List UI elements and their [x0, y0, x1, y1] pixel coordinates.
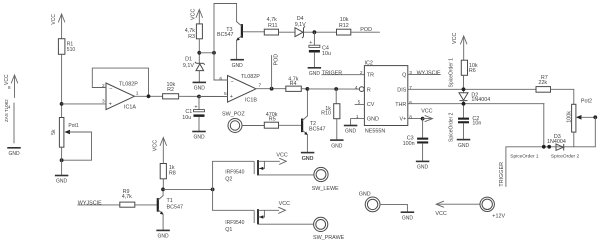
- svg-text:GND: GND: [417, 165, 429, 171]
- svg-text:VCC: VCC: [452, 33, 458, 44]
- svg-text:3: 3: [409, 70, 412, 76]
- svg-text:WYJSCIE: WYJSCIE: [417, 71, 441, 77]
- svg-text:GND: GND: [193, 135, 205, 141]
- svg-text:R: R: [367, 87, 371, 93]
- svg-text:DIS: DIS: [397, 87, 406, 93]
- svg-text:TRIGER: TRIGER: [322, 70, 342, 76]
- svg-text:GND: GND: [458, 143, 470, 149]
- svg-text:7: 7: [409, 85, 412, 91]
- svg-text:4,7k: 4,7k: [122, 194, 132, 200]
- svg-text:IC2: IC2: [365, 61, 373, 67]
- svg-text:BC547: BC547: [217, 32, 233, 38]
- svg-text:TRIGGER: TRIGGER: [499, 162, 505, 187]
- svg-text:WYJSCIE: WYJSCIE: [78, 200, 102, 206]
- svg-text:D4: D4: [297, 16, 304, 22]
- svg-text:VCC: VCC: [153, 140, 159, 151]
- svg-text:7: 7: [259, 83, 262, 89]
- svg-text:D1: D1: [185, 56, 192, 62]
- svg-text:10n: 10n: [472, 120, 481, 126]
- svg-text:TR: TR: [367, 72, 374, 78]
- svg-text:ZAS TL082: ZAS TL082: [4, 99, 9, 122]
- svg-text:POD: POD: [360, 27, 372, 33]
- svg-text:GND: GND: [359, 192, 371, 198]
- svg-text:R12: R12: [339, 23, 349, 29]
- svg-text:SW_PRAWE: SW_PRAWE: [313, 235, 345, 241]
- svg-text:BC547: BC547: [167, 205, 183, 211]
- svg-text:VCC: VCC: [279, 201, 290, 207]
- svg-text:−: −: [231, 79, 234, 85]
- svg-text:IC1A: IC1A: [124, 105, 136, 111]
- svg-text:GND: GND: [402, 215, 414, 221]
- svg-text:GND: GND: [345, 129, 357, 135]
- svg-text:22k: 22k: [538, 80, 547, 86]
- svg-text:CV: CV: [367, 102, 375, 108]
- svg-text:SW_LEWE: SW_LEWE: [312, 186, 339, 192]
- svg-text:5k: 5k: [51, 129, 57, 135]
- svg-text:1N4004: 1N4004: [547, 139, 566, 145]
- svg-text:VCC: VCC: [435, 211, 446, 217]
- svg-text:R3: R3: [188, 34, 195, 40]
- svg-text:IRF9540: IRF9540: [225, 220, 244, 226]
- svg-text:Pot2: Pot2: [581, 99, 592, 105]
- svg-text:2: 2: [102, 83, 105, 89]
- svg-text:POD: POD: [274, 54, 280, 66]
- svg-text:10u: 10u: [322, 51, 331, 57]
- svg-text:Q1: Q1: [225, 227, 232, 233]
- svg-text:SpiceOrder 2: SpiceOrder 2: [448, 112, 454, 142]
- svg-text:510: 510: [67, 47, 76, 53]
- svg-text:SW_POZ: SW_POZ: [222, 112, 245, 118]
- svg-text:100n: 100n: [403, 141, 415, 147]
- svg-text:2: 2: [360, 70, 363, 76]
- svg-text:3: 3: [102, 99, 105, 105]
- svg-text:GND: GND: [309, 71, 321, 77]
- svg-text:5: 5: [224, 91, 227, 97]
- svg-text:R2: R2: [167, 87, 174, 93]
- svg-text:9,1V: 9,1V: [183, 63, 194, 69]
- svg-text:T1: T1: [167, 198, 173, 204]
- svg-text:6: 6: [409, 100, 412, 106]
- svg-text:GND: GND: [331, 143, 343, 149]
- svg-text:GND: GND: [8, 151, 20, 157]
- svg-text:VCC: VCC: [51, 14, 57, 25]
- svg-text:GND: GND: [56, 179, 68, 185]
- svg-text:VCC: VCC: [421, 108, 432, 114]
- svg-text:SpiceOrder 1: SpiceOrder 1: [448, 58, 454, 88]
- svg-text:4: 4: [355, 85, 358, 91]
- svg-text:IC1B: IC1B: [245, 98, 257, 104]
- svg-text:+12V: +12V: [492, 214, 505, 220]
- svg-text:1: 1: [136, 91, 139, 97]
- svg-text:Q: Q: [402, 72, 406, 78]
- svg-text:9,1V: 9,1V: [295, 22, 306, 28]
- svg-text:+: +: [230, 94, 233, 100]
- svg-text:−: −: [109, 87, 112, 93]
- svg-text:GND: GND: [302, 156, 314, 162]
- svg-text:SpiceOrder 1: SpiceOrder 1: [510, 153, 539, 159]
- svg-text:R10: R10: [321, 111, 331, 117]
- svg-text:8: 8: [409, 115, 412, 121]
- svg-text:1N4004: 1N4004: [471, 97, 490, 103]
- svg-text:VCC: VCC: [4, 74, 10, 85]
- svg-text:NE555N: NE555N: [365, 129, 385, 135]
- svg-text:R6: R6: [469, 68, 476, 74]
- svg-text:Q2: Q2: [225, 177, 232, 183]
- svg-text:V+: V+: [400, 116, 407, 122]
- svg-text:10u: 10u: [182, 115, 191, 121]
- svg-text:Pot1: Pot1: [68, 123, 79, 129]
- svg-text:R5: R5: [269, 117, 276, 123]
- svg-text:GND: GND: [232, 63, 244, 69]
- svg-text:R11: R11: [268, 23, 278, 29]
- svg-text:SpiceOrder 2: SpiceOrder 2: [551, 153, 580, 159]
- svg-text:6: 6: [219, 76, 222, 82]
- svg-text:VCC: VCC: [276, 153, 287, 159]
- svg-text:GND: GND: [194, 86, 206, 92]
- svg-text:THR: THR: [395, 102, 406, 108]
- svg-text:GND: GND: [158, 234, 170, 240]
- svg-text:100k: 100k: [566, 111, 572, 123]
- svg-text:+: +: [109, 102, 112, 108]
- svg-text:1: 1: [356, 114, 359, 120]
- svg-text:TL082P: TL082P: [119, 82, 138, 88]
- svg-text:GND: GND: [367, 116, 379, 122]
- svg-text:IRF9540: IRF9540: [225, 170, 244, 176]
- svg-text:BC547: BC547: [309, 126, 325, 132]
- svg-text:R4: R4: [290, 81, 297, 87]
- svg-text:TL082P: TL082P: [241, 74, 260, 80]
- svg-text:VCC: VCC: [190, 9, 196, 20]
- svg-text:R8: R8: [169, 170, 176, 176]
